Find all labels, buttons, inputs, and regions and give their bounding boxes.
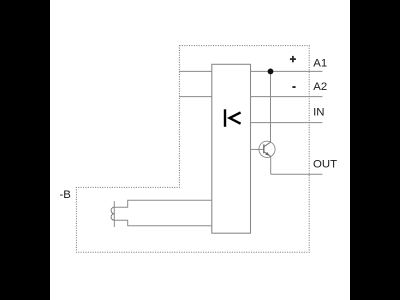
transistor Q1 circle bbox=[259, 141, 275, 157]
wire A2 right segment bbox=[251, 96, 323, 98]
plus polarity mark bbox=[290, 58, 296, 60]
transistor Q1 emitter diagonal bbox=[264, 152, 271, 157]
svg-text:OUT: OUT bbox=[313, 159, 337, 171]
left pillarbox bar bbox=[0, 0, 50, 300]
current symbol I< chevron bbox=[230, 112, 241, 123]
right pillarbox bar bbox=[350, 0, 400, 300]
coil L1 winding arcs bbox=[111, 207, 114, 220]
relay block U1 bbox=[212, 64, 251, 233]
svg-text:IN: IN bbox=[313, 107, 324, 119]
current symbol I< bar bbox=[224, 109, 226, 127]
coil L1 bottom lead bbox=[114, 220, 212, 226]
wire base from block bbox=[251, 148, 264, 150]
wire A2 left segment bbox=[179, 96, 211, 98]
minus polarity mark bbox=[292, 86, 295, 88]
wire emitter vertical bbox=[270, 157, 272, 174]
node junction dot on A1 bbox=[268, 69, 274, 75]
coil L1 top lead bbox=[114, 200, 212, 207]
transistor Q1 base bar bbox=[263, 144, 265, 153]
wire IN right segment bbox=[251, 122, 323, 124]
dashed enclosure outline bbox=[76, 46, 309, 253]
svg-text:A1: A1 bbox=[313, 57, 327, 69]
coil L1 core bar bbox=[113, 201, 115, 227]
wire A1 left segment bbox=[179, 70, 211, 72]
wire A1 right segment bbox=[251, 70, 323, 72]
svg-text:-B: -B bbox=[60, 189, 71, 201]
wire OUT horizontal bbox=[271, 173, 323, 175]
svg-text:A2: A2 bbox=[313, 81, 327, 93]
transistor Q1 collector diagonal bbox=[264, 142, 271, 147]
wire collector vertical bbox=[270, 71, 272, 142]
transistor Q1 emitter arrowhead bbox=[265, 152, 269, 156]
